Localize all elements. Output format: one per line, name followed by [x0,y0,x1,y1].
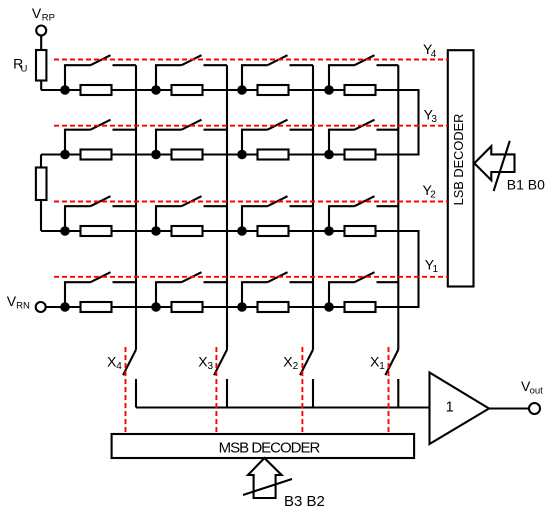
svg-text:1: 1 [379,361,385,372]
svg-text:RP: RP [42,13,55,24]
svg-text:1: 1 [433,264,439,275]
svg-text:2: 2 [430,189,436,200]
svg-text:out: out [530,386,544,397]
svg-text:4: 4 [116,361,122,372]
svg-text:V: V [32,5,42,21]
svg-text:RN: RN [16,300,30,311]
svg-text:2: 2 [293,361,299,372]
svg-text:MSB DECODER: MSB DECODER [219,440,321,457]
svg-text:3: 3 [208,361,214,372]
svg-text:1: 1 [446,400,454,416]
svg-text:LSB DECODER: LSB DECODER [451,114,466,206]
svg-text:B1 B0: B1 B0 [507,177,545,193]
svg-text:U: U [21,63,28,74]
svg-text:4: 4 [431,49,437,60]
svg-text:3: 3 [431,114,437,125]
svg-text:B3 B2: B3 B2 [284,493,325,510]
